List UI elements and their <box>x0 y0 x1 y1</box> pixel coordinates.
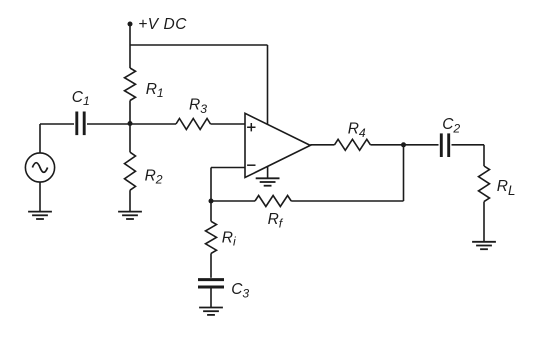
resistor Ri <box>206 221 217 253</box>
op-amp U1 <box>245 113 310 177</box>
resistor R2 <box>125 152 136 190</box>
svg-text:+V DC: +V DC <box>138 16 187 33</box>
ground (source) <box>28 212 52 219</box>
ground (op-amp) <box>256 178 280 185</box>
wire Rf to output column <box>291 200 403 202</box>
wire R2 bottom to ground <box>129 190 131 211</box>
wire down to node B and Ri <box>210 168 212 222</box>
node A (input bias node) <box>128 121 133 126</box>
ground (RL) <box>472 242 496 249</box>
wire node B to Rf <box>211 200 255 202</box>
resistor R4 <box>335 139 371 150</box>
node +V DC tap <box>128 22 133 27</box>
resistor R3 <box>176 119 211 130</box>
wire C2 to RL column <box>452 144 485 146</box>
wire Ri bottom to C3 <box>210 253 212 277</box>
wire down to source top <box>39 124 41 153</box>
wire C1 to R3 <box>87 123 176 125</box>
capacitor C3 <box>198 280 224 287</box>
wire op-amp output to R4 <box>310 144 334 146</box>
ground (R2) <box>118 212 142 219</box>
ground (C3) <box>199 308 223 315</box>
wire source bottom to ground <box>39 182 41 212</box>
wire R3 to op-amp + input <box>211 123 246 125</box>
wire R4 through node to C2 <box>370 144 438 146</box>
wire +V rail horizontal <box>130 44 268 46</box>
node B (inverting input node) <box>209 199 214 204</box>
wire down to RL top <box>483 145 485 166</box>
wire R1 bottom through node to R2 top <box>129 101 131 153</box>
wire +V rail down to op-amp <box>267 45 269 124</box>
AC source VS <box>25 153 54 182</box>
wire source column to C1 <box>40 123 74 125</box>
wire op-amp - input left <box>211 167 245 169</box>
capacitor C1 <box>77 112 84 136</box>
wire +V DC dot to R1 top <box>129 24 131 68</box>
resistor RL <box>479 166 490 202</box>
capacitor C2 <box>441 133 448 157</box>
node C (output node) <box>401 142 406 147</box>
resistor R1 <box>125 68 136 101</box>
wire feedback up to output node <box>403 145 405 201</box>
resistor Rf <box>255 196 291 207</box>
wire C3 bottom to ground <box>210 288 212 308</box>
wire RL bottom to ground <box>483 202 485 242</box>
wire op-amp ground stem <box>267 166 269 178</box>
